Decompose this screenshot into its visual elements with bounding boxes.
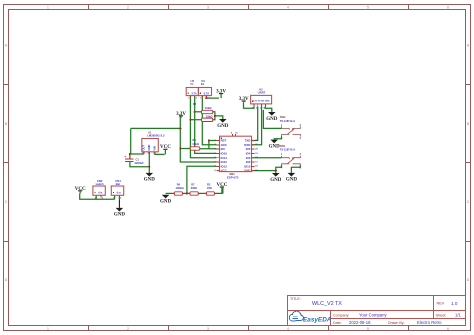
svg-text:22K: 22K [207, 186, 212, 190]
svg-text:3.3V TX RX GND: 3.3V TX RX GND [253, 101, 270, 103]
svg-text:100kΩ: 100kΩ [176, 186, 185, 190]
svg-text:-3.7A: -3.7A [203, 92, 209, 95]
svg-text:switch: switch [95, 182, 103, 186]
svg-text:SW2: SW2 [280, 115, 286, 119]
svg-text:R5: R5 [193, 102, 197, 106]
svg-text:GND: GND [270, 178, 282, 183]
svg-text:LM2950G-3.3: LM2950G-3.3 [147, 133, 165, 137]
svg-text:1/1: 1/1 [455, 312, 461, 317]
svg-text:1: 1 [47, 6, 49, 10]
svg-text:C1: C1 [136, 158, 140, 162]
svg-text:GND: GND [286, 178, 298, 183]
svg-text:330K: 330K [191, 186, 197, 190]
svg-text:2: 2 [127, 6, 129, 10]
svg-text:UART: UART [258, 90, 266, 94]
svg-text:-3.7A: -3.7A [191, 92, 197, 95]
svg-text:Sheet:: Sheet: [436, 313, 447, 317]
svg-text:OUT: OUT [142, 145, 146, 151]
svg-text:2200uF: 2200uF [135, 161, 145, 165]
svg-text:2: 2 [127, 327, 129, 331]
svg-text:Your Company: Your Company [359, 312, 387, 317]
svg-text:SW1: SW1 [280, 144, 286, 148]
svg-text:Date:: Date: [333, 321, 342, 325]
svg-text:Company:: Company: [333, 313, 349, 317]
svg-text:TS-1187-B-A: TS-1187-B-A [280, 148, 295, 152]
svg-text:10kΩ: 10kΩ [205, 106, 212, 110]
svg-text:10kΩ: 10kΩ [192, 142, 199, 146]
svg-text:GND: GND [147, 145, 151, 151]
svg-text:6: 6 [447, 6, 449, 10]
svg-text:ESP-07S: ESP-07S [227, 175, 239, 179]
svg-text:GND: GND [244, 169, 250, 173]
svg-text:VCC: VCC [221, 169, 228, 173]
svg-text:EasyEDA: EasyEDA [303, 317, 332, 324]
svg-text:5: 5 [367, 327, 369, 331]
svg-text:3: 3 [207, 6, 209, 10]
svg-text:GND: GND [266, 117, 278, 122]
svg-text:B1: B1 [201, 82, 205, 86]
svg-text:Electro Retro: Electro Retro [417, 320, 442, 325]
svg-text:3: 3 [207, 327, 209, 331]
svg-text:6: 6 [447, 327, 449, 331]
svg-text:2022-08-18: 2022-08-18 [349, 320, 371, 325]
svg-text:REV: REV [437, 302, 445, 306]
svg-text:5: 5 [367, 6, 369, 10]
svg-text:4: 4 [287, 6, 289, 10]
svg-text:TS-1187-B-A: TS-1187-B-A [280, 119, 295, 123]
svg-text:GND: GND [114, 213, 126, 218]
svg-text:1.0: 1.0 [451, 301, 458, 306]
svg-text:GND: GND [217, 124, 229, 129]
svg-text:1: 1 [47, 327, 49, 331]
svg-text:Bat: Bat [116, 182, 120, 186]
svg-text:d in: d in [98, 193, 103, 195]
svg-text:+: + [124, 155, 126, 159]
svg-text:GND: GND [160, 200, 172, 205]
svg-text:GND: GND [269, 144, 281, 149]
svg-text:TITLE:: TITLE: [290, 297, 301, 301]
svg-text:R0: R0 [193, 138, 197, 142]
svg-text:WLC_V2 TX: WLC_V2 TX [312, 301, 342, 307]
svg-text:4: 4 [287, 327, 289, 331]
svg-text:d in: d in [117, 193, 122, 195]
svg-text:Drawn By:: Drawn By: [388, 321, 405, 325]
svg-text:VIN: VIN [153, 146, 157, 151]
svg-text:GND: GND [144, 178, 156, 183]
